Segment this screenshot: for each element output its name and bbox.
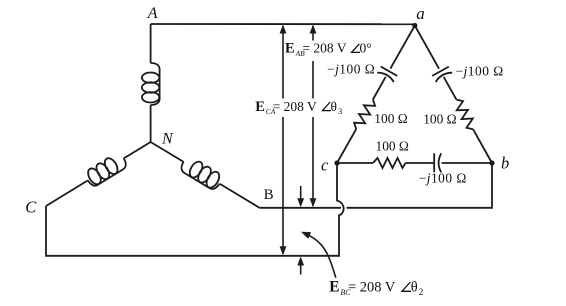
svg-text:100 Ω: 100 Ω [423, 112, 456, 127]
svg-text:θ: θ [331, 99, 337, 114]
svg-text:E: E [255, 99, 265, 115]
svg-text:B: B [264, 187, 274, 203]
svg-text:= 208 V: = 208 V [302, 41, 346, 56]
svg-text:E: E [329, 279, 339, 296]
svg-text:−j100 Ω: −j100 Ω [456, 63, 504, 78]
svg-text:3: 3 [338, 106, 342, 116]
svg-text:= 208 V: = 208 V [273, 99, 317, 114]
svg-text:θ: θ [411, 280, 418, 296]
svg-text:A: A [147, 5, 158, 22]
svg-text:100 Ω: 100 Ω [376, 138, 409, 153]
svg-text:b: b [501, 153, 509, 172]
svg-text:2: 2 [419, 287, 424, 297]
svg-text:100 Ω: 100 Ω [374, 111, 407, 126]
svg-text:−j100 Ω: −j100 Ω [327, 61, 375, 76]
svg-text:C: C [25, 198, 37, 217]
svg-text:E: E [285, 41, 295, 57]
svg-text:= 208 V: = 208 V [348, 280, 396, 296]
svg-text:−j100 Ω: −j100 Ω [419, 171, 467, 186]
svg-text:N: N [161, 130, 174, 147]
svg-text:0°: 0° [360, 41, 372, 56]
svg-text:c: c [321, 156, 329, 175]
svg-text:a: a [416, 4, 425, 23]
